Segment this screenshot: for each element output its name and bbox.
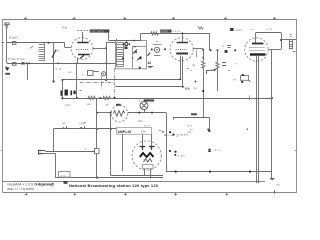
tube V3 envelope (245, 38, 268, 61)
vertical x111 (110, 113, 112, 176)
bracket wire (filter top) (173, 117, 209, 119)
wire into IF can (106, 42, 116, 44)
oscillator grid vertical (53, 43, 55, 82)
cap bars (222, 63, 226, 66)
V4 filament dark (140, 153, 154, 157)
svg-text:-4: -4 (84, 147, 87, 151)
V1 cathode lead down (77, 58, 79, 64)
antenna coil L1 (39, 43, 45, 61)
svg-text:B Wa. B Wa.: B Wa. B Wa. (8, 57, 25, 61)
V4 base box (143, 165, 154, 169)
V1 grid cap dashes (77, 30, 89, 32)
V3 top wire to OT (256, 32, 282, 34)
svg-text:- 500: - 500 (136, 119, 143, 123)
detector trimmer circle (154, 47, 159, 52)
V3 heater leads long (256, 56, 258, 183)
AC bus upper (111, 175, 163, 177)
return wire lower (115, 86, 183, 88)
V2 plate (177, 42, 188, 44)
vertical x97 chain (96, 98, 98, 148)
V3 labels (230, 28, 233, 31)
svg-text:da: da (192, 63, 196, 67)
tick on wire (116, 39, 118, 41)
B+ feed upper wire (109, 40, 141, 42)
pilot lamp (140, 102, 148, 110)
V2 plate lead (182, 33, 184, 42)
switch break symbols (63, 126, 85, 128)
svg-text:am: am (68, 71, 72, 74)
svg-text:+: + (170, 129, 172, 132)
svg-text:OSC.MOD.: OSC.MOD. (90, 29, 105, 33)
fuse box (59, 172, 71, 178)
svg-text:.: . (263, 27, 264, 31)
grid wire coil to V1 (44, 42, 64, 44)
svg-text:R ANT. .: R ANT. . (9, 36, 21, 40)
AVC bus (62, 98, 271, 100)
heater row wire (97, 112, 111, 114)
dark bar above bracket (191, 113, 197, 115)
svg-text:ra. rr: ra. rr (144, 123, 150, 127)
svg-text:B.DET: B.DET (161, 29, 169, 33)
V1 cathode arrow (80, 55, 84, 58)
resistor R1 series box (13, 42, 16, 45)
node dots on wire (26, 62, 28, 64)
small arrow mark (30, 46, 33, 48)
svg-text:A.: A. (82, 73, 85, 77)
svg-text:+ a -a-: + a -a- (172, 29, 180, 33)
label strip box (117, 128, 152, 135)
volume pot vertical (217, 50, 219, 62)
svg-text:a. m.--: a. m.-- (215, 149, 223, 152)
V1 plate (77, 42, 88, 44)
fold tick marks bottom edge (25, 190, 275, 196)
long vertical to bottom bus (271, 49, 273, 171)
svg-text:10k r: 10k r (65, 103, 71, 107)
V3 plate lead (255, 33, 257, 43)
svg-text:AMP.LIG: AMP.LIG (118, 130, 132, 134)
fold tick marks top edge (24, 17, 276, 20)
vertical below V1 cathode (76, 63, 78, 98)
resistor R3 zigzag (103, 96, 110, 99)
vertical x203 with resistor (203, 49, 205, 61)
labels above B+ (160, 30, 172, 33)
IF transformer can (116, 41, 147, 69)
V2 right wire (193, 48, 203, 50)
connector dark marks D (61, 90, 76, 96)
wire antenna to coil (7, 42, 44, 44)
AC bus lower (55, 177, 163, 179)
pot wiper arrow (214, 69, 216, 71)
main B+ wire (141, 33, 210, 35)
V1 grid dotted (76, 49, 89, 51)
V1 type label dark (90, 29, 110, 32)
V2 leads down (180, 56, 182, 80)
svg-text:4a: 4a (56, 49, 60, 53)
IF inner divider (132, 46, 134, 68)
left margin mark (1, 150, 4, 152)
rectifier tube V4 envelope (132, 141, 161, 170)
svg-text:BF: BF (62, 122, 66, 126)
small dark arrow at can edge (148, 53, 150, 56)
wires to output transformer (281, 39, 296, 41)
svg-text:w: w (222, 44, 225, 48)
small L-box left of R col (196, 50, 198, 58)
padder circle (101, 72, 105, 76)
V4 plates (140, 146, 155, 150)
AVC/ground wire (7, 63, 116, 65)
vertical from wire to bus left (62, 80, 64, 98)
V2 cathode (176, 53, 188, 55)
svg-text:PW: PW (62, 26, 68, 30)
svg-text:yw: yw (193, 86, 197, 90)
tick (80, 90, 82, 92)
svg-text:b+: b+ (139, 99, 142, 103)
svg-text:a. am: a. am (167, 134, 174, 137)
drop to AC plug (53, 129, 55, 152)
svg-text:12: 12 (147, 61, 151, 65)
V3 grids dotted (250, 47, 265, 49)
svg-text:w: w (235, 61, 238, 65)
svg-text:a. am.: a. am. (178, 154, 186, 157)
IF grid blob (125, 47, 128, 50)
node row dots (202, 49, 204, 51)
dial lamp circle (111, 105, 128, 122)
plug wires (45, 151, 95, 153)
V1 cathode (78, 54, 90, 56)
svg-text:B. W: B. W (56, 67, 62, 71)
V3 cathode network (241, 76, 249, 81)
box on x97 (95, 149, 100, 154)
svg-text:BA: BA (185, 86, 190, 90)
rectifier plate leads (142, 134, 144, 146)
small box component under V1 (88, 71, 94, 76)
tube V1 converter envelope (71, 38, 93, 60)
marks near right frame (290, 35, 297, 151)
V1 right side wire (93, 48, 106, 50)
border frame (3, 19, 297, 193)
ground left (5, 67, 10, 72)
V4 leads to AC (144, 169, 146, 176)
svg-text:Jas: Jas (187, 130, 192, 134)
svg-text:c: c (235, 77, 237, 81)
svg-text:ar b: ar b (188, 124, 193, 128)
dark bar above pilot (144, 99, 154, 101)
svg-text:-++-: -++- (249, 27, 254, 31)
svg-text:ma: ma (276, 184, 280, 187)
return wire upper (62, 79, 180, 81)
antenna arrow (5, 27, 9, 29)
antenna (4, 25, 10, 64)
IF dots (135, 51, 137, 53)
stub down (27, 63, 29, 80)
dark bar on dial lamp top (116, 104, 121, 106)
AC plug (38, 150, 42, 155)
V3 cathode dark (250, 53, 266, 55)
bottom B bus (166, 171, 272, 173)
padder capacitor dark cluster (125, 42, 128, 45)
svg-text:+6F6 ~: +6F6 ~ (234, 28, 244, 32)
filter cluster dots and texts (169, 131, 171, 133)
resistor R2 zigzag (88, 96, 95, 99)
small zigzag mark right (198, 27, 203, 29)
output transformer coil (289, 40, 292, 49)
shield dash-dot (80, 68, 115, 98)
capacitor small box on wire (13, 63, 17, 66)
heater drop from row to bus (166, 113, 168, 172)
switch X symbol (22, 62, 25, 65)
svg-text:National Broadcasting station: National Broadcasting station 120 type 1… (69, 183, 159, 188)
svg-text:a-: a- (190, 68, 193, 72)
tube V2 envelope (170, 38, 193, 61)
V3 plate (252, 43, 263, 45)
svg-text:SW--: SW-- (141, 130, 147, 134)
svg-text:4-BB: 4-BB (79, 122, 85, 126)
bus end ground right (271, 172, 273, 179)
svg-text:Mr: Mr (106, 103, 109, 107)
V1 plate lead (82, 32, 84, 43)
IF primary coil ladder (117, 43, 124, 67)
left edge fold tick (1, 42, 5, 44)
svg-text:a m: a m (61, 173, 66, 177)
marks under 12 (148, 66, 153, 68)
resistor R5 zigzag on B+ (151, 32, 158, 35)
antenna top blob (4, 22, 7, 23)
svg-text:asa. L l i r q wubu: asa. L l i r q wubu (7, 187, 34, 191)
svg-text:a =w: a =w (266, 27, 273, 31)
tuning capacitor arrow (52, 51, 56, 58)
V4 filament lower m (144, 159, 153, 162)
V2 grid dotted (176, 49, 187, 51)
IF trimmer arrows (133, 49, 137, 53)
vertical x122 below strip (122, 134, 124, 171)
title dark mark (64, 181, 68, 184)
svg-text:am: am (87, 102, 92, 106)
AC switch line (54, 128, 117, 130)
